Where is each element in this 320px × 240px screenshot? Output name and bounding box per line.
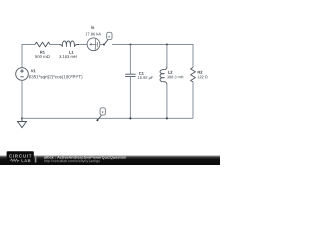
R1 value 500 mOhm — [35, 55, 49, 58]
switch SW2 icon arrow — [102, 112, 104, 114]
wire C1 bottom lead — [129, 77, 131, 119]
wire SW1 to top-right corner and down to R2 — [112, 45, 193, 68]
R1 label — [40, 51, 45, 54]
wire L1 to ammeter — [79, 44, 87, 46]
resistor R1 — [35, 42, 50, 47]
wire L2 bottom lead — [166, 85, 168, 119]
logo text CIRCUIT — [9, 154, 31, 157]
wire C1 top lead — [129, 45, 131, 75]
wire L2 top lead — [166, 45, 168, 68]
L1 label — [69, 51, 73, 54]
logo squiggle — [10, 159, 20, 161]
L2 value — [167, 76, 183, 79]
C1 value — [138, 76, 153, 80]
node dot L2 bottom — [166, 117, 168, 119]
ammeter ia body — [87, 38, 100, 51]
node dot L2 top — [166, 43, 168, 45]
C1 label — [139, 72, 144, 75]
L2 label — [168, 71, 172, 74]
wire bottom rail — [22, 117, 193, 119]
V1 label — [31, 69, 36, 72]
switch SW2 toggle icon — [100, 108, 105, 115]
V1 value expression — [29, 75, 82, 79]
logo text LAB — [21, 159, 30, 162]
node dot C1 top — [129, 43, 131, 45]
wire top-left vertical (V1 top to top rail) — [22, 45, 35, 68]
ammeter label ia — [91, 26, 94, 29]
capacitor C1 plates — [125, 73, 135, 75]
ammeter needle curve — [95, 39, 96, 50]
ground — [21, 118, 23, 121]
watermark title line — [44, 156, 126, 160]
node dot bottom-left — [21, 117, 23, 119]
switch SW1 icon arrow — [108, 36, 110, 38]
switch SW2 blade — [97, 115, 101, 120]
V1 plus sign — [20, 69, 24, 73]
R2 label — [198, 71, 203, 74]
watermark logo badge — [7, 151, 34, 165]
ammeter value 17.96 kA — [86, 33, 101, 36]
L1 value — [59, 55, 76, 58]
watermark url line — [44, 159, 100, 162]
switch SW1 blade — [104, 40, 108, 45]
wire R2 bottom lead — [192, 82, 194, 118]
switch SW2 pivot dot — [96, 119, 98, 121]
resistor R2 — [191, 67, 196, 82]
R2 value — [198, 76, 208, 79]
switch SW1 toggle icon — [107, 32, 112, 39]
switch SW1 pivot dot — [103, 43, 105, 45]
ammeter small arc — [96, 42, 99, 47]
V1 minus sign — [20, 76, 23, 78]
wire R1 to L1 — [50, 44, 59, 46]
wire V1 bottom lead — [21, 80, 23, 118]
node dot C1 bottom — [129, 117, 131, 119]
ammeter arrow — [89, 43, 92, 45]
voltage source V1 body — [16, 68, 29, 81]
inductor L1 — [59, 41, 79, 47]
inductor L2 — [160, 67, 167, 85]
wire ammeter to switch SW1 — [100, 44, 104, 46]
watermark separator icon — [35, 156, 37, 163]
